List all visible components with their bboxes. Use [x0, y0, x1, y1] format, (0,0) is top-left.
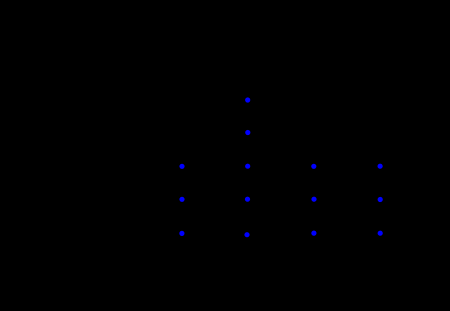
wire C2-E3 [248, 133, 380, 167]
node C4 [245, 197, 250, 202]
node B4 [179, 197, 184, 202]
wire B3-B4 [181, 166, 183, 199]
node E5 [378, 231, 383, 236]
wire C2-B3 [182, 133, 248, 167]
wire C2-D3 [248, 133, 314, 167]
node D4 [311, 197, 316, 202]
node B5 [179, 231, 184, 236]
node C3 [245, 164, 250, 169]
wire C3-C4 [247, 166, 249, 199]
node D3 [311, 164, 316, 169]
node C5 [244, 232, 249, 237]
wire C4-C5 [246, 199, 248, 234]
wire C2-C3 [247, 133, 249, 167]
wire B4-B5 [181, 199, 183, 233]
node C2 [245, 130, 250, 135]
wire E3-E4 [379, 166, 381, 199]
node D5 [311, 231, 316, 236]
wire E4-E5 [379, 200, 381, 234]
node C1 [245, 97, 250, 102]
node E4 [378, 197, 383, 202]
wire D4-D5 [313, 199, 315, 233]
node E3 [378, 164, 383, 169]
wire C1-C2 [247, 100, 249, 133]
node B3 [179, 164, 184, 169]
wire D3-D4 [313, 166, 315, 199]
